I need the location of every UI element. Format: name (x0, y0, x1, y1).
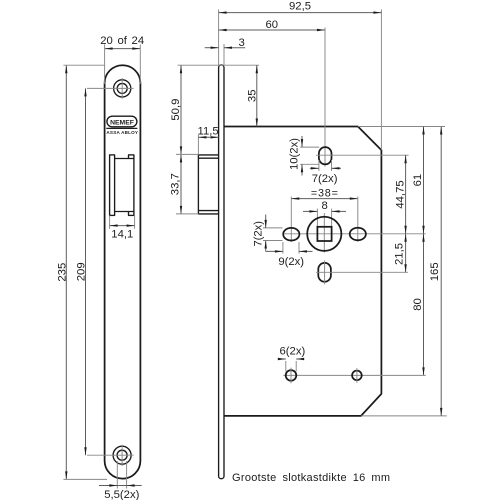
latch bottom extension left (176, 213, 198, 215)
dimension 60 line (219, 29, 325, 31)
case bottom edge extension right (361, 415, 447, 417)
dimension 9(2x) extensions (282, 242, 284, 254)
left hole (9x7) (283, 228, 299, 241)
dimension 5,5(2x) extension lines (116, 461, 118, 489)
dimension 92,5 extension left (strip edge up) (218, 10, 220, 65)
dimension 44,75 line (405, 155, 407, 234)
backset centerline (60 extension down through top oval) (324, 28, 326, 167)
svg-text:35: 35 (247, 90, 259, 103)
svg-text:NEMEF: NEMEF (110, 120, 134, 127)
top screw hole inner circle (117, 83, 127, 93)
dimension 61 line (423, 127, 425, 234)
svg-text:ASSA ABLOY: ASSA ABLOY (106, 130, 138, 135)
dimension 8 line (303, 210, 317, 212)
top screw crosshair horizontal (87, 87, 134, 89)
faceplate front view outline (105, 65, 141, 478)
top screw crosshair vertical (121, 78, 123, 99)
dimension 6(2x) line (279, 358, 285, 360)
=38= extension left (through left hole) (290, 197, 292, 243)
svg-text:165: 165 (429, 262, 441, 281)
svg-text:7(2x): 7(2x) (312, 173, 338, 185)
svg-text:3: 3 (239, 37, 245, 49)
svg-text:44,75: 44,75 (394, 180, 406, 208)
top screw hole outer circle (114, 80, 131, 97)
dimension 35 line (256, 65, 258, 126)
latch top extension left (176, 153, 198, 155)
dimension 6(2x) extensions (285, 361, 287, 372)
dimension 14,1 extension lines (109, 215, 111, 228)
svg-text:33,7: 33,7 (170, 173, 182, 195)
dimension 10(2x) extensions (300, 146, 319, 148)
svg-text:9(2x): 9(2x) (278, 256, 304, 268)
dimension 20 of 24 line (105, 48, 141, 50)
dimension =38= line (291, 198, 358, 200)
logo underline (106, 127, 137, 129)
dimension 11,5 extension (197, 135, 199, 154)
bottom screw crosshair vertical (121, 445, 123, 466)
lock case outline (224, 127, 381, 416)
svg-text:60: 60 (266, 19, 279, 31)
dimension 209 line (85, 88, 87, 455)
svg-text:235: 235 (57, 263, 69, 282)
svg-text:10(2x): 10(2x) (288, 138, 300, 170)
faceplate side view strip (219, 65, 224, 479)
svg-text:80: 80 (412, 298, 424, 311)
bottom right fixing hole (352, 371, 362, 381)
svg-text:=38=: =38= (311, 188, 339, 200)
svg-text:6(2x): 6(2x) (280, 345, 306, 357)
dimension 7(2x) top extensions (318, 160, 320, 171)
hub horizontal centerline (284, 233, 426, 235)
svg-text:20 of 24: 20 of 24 (100, 35, 144, 47)
svg-text:209: 209 (76, 262, 88, 281)
plate top extension line (for 50,9 / 35) (178, 64, 260, 66)
hub vertical centerline (323, 213, 325, 253)
top oval hole (319, 147, 332, 164)
dimension 7(2x) top line (310, 167, 319, 169)
bottom oval crosshair vertical (324, 261, 326, 285)
bottom oval crosshair horizontal / 21,5 extension (316, 271, 408, 273)
dimension 11,5 line (198, 136, 218, 138)
dimension 33,7 line (180, 154, 182, 214)
case top edge extension right (358, 126, 445, 128)
hub square spindle hole (317, 227, 331, 241)
dimension 92,5 extension right (case edge up) (380, 10, 382, 151)
dimension 3 extension right (223, 44, 225, 65)
latch bolt side view (198, 155, 218, 214)
svg-text:14,1: 14,1 (111, 229, 133, 241)
bottom left fixing hole (286, 370, 297, 381)
dimension 165 line (440, 127, 442, 416)
dimension 9(2x) line (266, 250, 283, 252)
svg-text:92,5: 92,5 (289, 1, 311, 13)
=38= extension right (through right hole) (357, 197, 359, 243)
bottom right hole crosshair vertical (356, 368, 358, 383)
dimension 3 line (205, 47, 219, 49)
dimension 14,1 line (110, 225, 135, 227)
svg-text:21,5: 21,5 (394, 243, 406, 265)
bottom screw hole inner circle (117, 450, 127, 460)
hub circle (307, 217, 341, 251)
bottom screw crosshair horizontal (87, 454, 134, 456)
svg-text:11,5: 11,5 (198, 125, 219, 137)
dimension 7(2x) left line (265, 215, 267, 228)
dimension 10(2x) line (301, 136, 303, 147)
dimension 92,5 line (219, 12, 382, 14)
bottom screw hole outer circle (113, 446, 131, 464)
top oval crosshair horizontal / 44,75 extension (316, 154, 409, 156)
svg-text:7(2x): 7(2x) (253, 221, 265, 247)
dimension 235 extension top (63, 64, 104, 66)
dimension 21,5 line (405, 234, 407, 272)
dimension 7(2x) left extensions (263, 227, 283, 229)
dimension 5,5(2x) line (99, 485, 142, 487)
bottom left hole crosshair vertical (290, 368, 292, 384)
dimension 80 line (423, 234, 425, 376)
svg-text:5,5(2x): 5,5(2x) (104, 489, 139, 500)
dimension 235 extension bottom (63, 478, 107, 480)
latch cutout front view (109, 155, 134, 216)
svg-text:Grootste slotkastdikte 16 mm: Grootste slotkastdikte 16 mm (232, 472, 390, 484)
NEMEF logo oval (107, 116, 137, 127)
svg-text:8: 8 (322, 200, 328, 212)
dimension 8 extensions (316, 209, 318, 228)
svg-text:61: 61 (412, 174, 424, 187)
dimension 50,9 line (180, 65, 182, 154)
dimension 20 of 24 extension lines (104, 45, 106, 85)
svg-text:50,9: 50,9 (170, 99, 182, 121)
dimension 235 line (65, 65, 67, 479)
bottom fixing holes centerline / 80 extension (283, 374, 425, 376)
right hole (9x7) (350, 228, 366, 241)
bottom oval hole (318, 263, 331, 282)
